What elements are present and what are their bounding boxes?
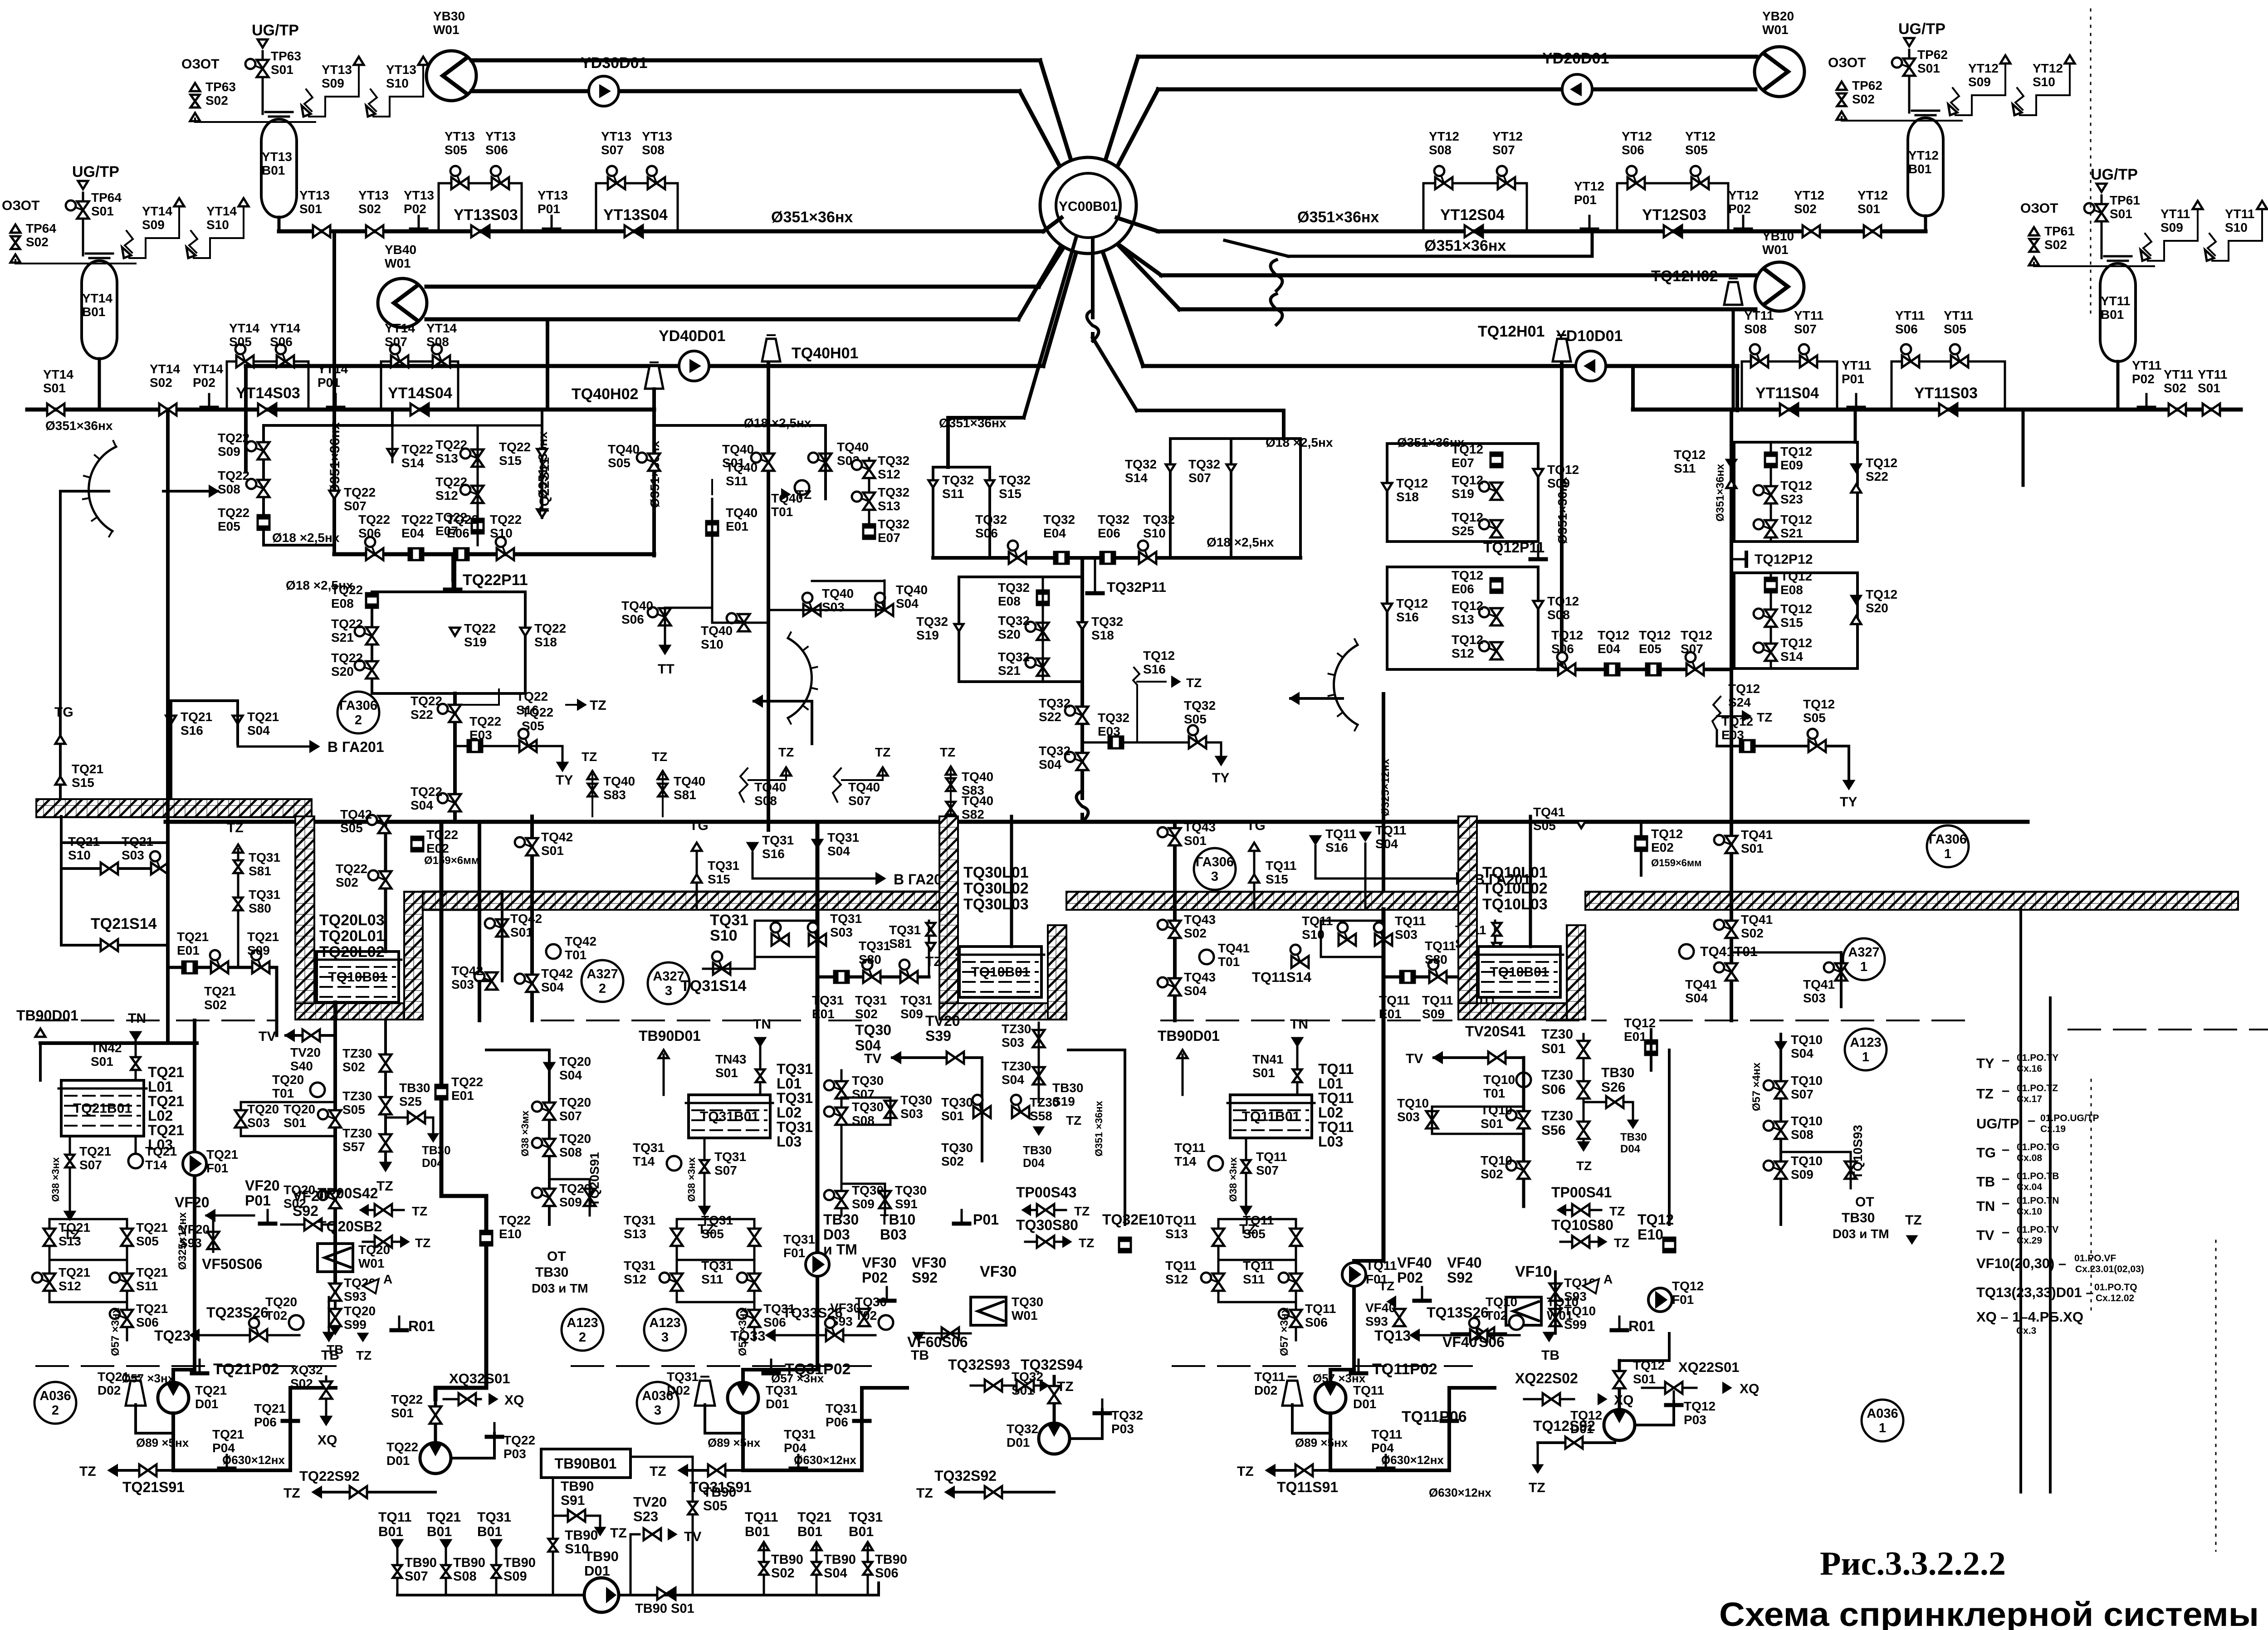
svg-text:S16: S16 — [1396, 610, 1419, 624]
orifice TQ32 E03 — [1082, 742, 1221, 744]
svg-text:S06: S06 — [875, 1566, 899, 1581]
svg-text:B01: B01 — [378, 1524, 403, 1539]
svg-text:TQ22: TQ22 — [331, 651, 363, 665]
svg-text:S07: S07 — [1256, 1163, 1279, 1177]
svg-text:S18: S18 — [534, 635, 557, 649]
svg-text:S03: S03 — [1803, 991, 1826, 1005]
svg-text:S06: S06 — [1551, 642, 1574, 656]
svg-text:TQ21P02: TQ21P02 — [213, 1361, 279, 1378]
svg-text:S83: S83 — [603, 788, 626, 802]
valve TQ22 S14 — [387, 449, 397, 457]
svg-text:B01: B01 — [2101, 307, 2124, 322]
svg-text:TQ20: TQ20 — [559, 1132, 591, 1146]
svg-text:S56: S56 — [1541, 1123, 1565, 1138]
valve YT14 S06 — [277, 356, 285, 367]
horn TQ12H01 — [1553, 339, 1571, 361]
svg-text:TY: TY — [556, 773, 573, 788]
svg-text:P01: P01 — [1842, 372, 1864, 386]
valve TQ22 S18 — [520, 628, 530, 636]
svg-text:TQ41: TQ41 — [1533, 805, 1565, 819]
vertical main x=737 — [332, 231, 336, 554]
tag circle A123-3 — [644, 1309, 686, 1351]
svg-text:S07: S07 — [848, 794, 871, 808]
svg-text:TQ12: TQ12 — [1780, 636, 1812, 650]
svg-text:TQ32E10: TQ32E10 — [1102, 1211, 1164, 1228]
svg-text:S01: S01 — [1857, 202, 1880, 216]
bypass box YT14S03 — [227, 361, 308, 410]
svg-text:S16: S16 — [1143, 662, 1166, 676]
svg-text:TP00S43: TP00S43 — [1016, 1184, 1076, 1201]
svg-text:S91: S91 — [561, 1493, 585, 1508]
valve TQ31 S04 — [813, 840, 822, 847]
svg-text:Cx.04: Cx.04 — [2017, 1182, 2042, 1192]
svg-text:TQ21: TQ21 — [206, 1147, 238, 1161]
svg-text:TQ32P11: TQ32P11 — [1107, 579, 1166, 595]
svg-text:TQ21: TQ21 — [122, 835, 153, 849]
hx TQ10W01 — [1506, 1297, 1541, 1325]
svg-text:B01: B01 — [849, 1524, 874, 1539]
vertical YB40 to YT14 row — [546, 319, 549, 410]
valve TB30 S25 — [386, 1117, 433, 1119]
riser TQ42 S01 x=1057 — [478, 822, 481, 1020]
valve TQ12 S14 — [1765, 644, 1777, 652]
valve TQ40 S10 — [738, 614, 750, 623]
svg-text:S11: S11 — [942, 487, 964, 501]
valve TQ22S92 — [318, 1491, 435, 1493]
svg-text:S09: S09 — [503, 1569, 527, 1584]
valve VF30 S93 — [858, 1309, 870, 1318]
valve TQ20 S02 — [329, 1191, 341, 1200]
svg-text:S09: S09 — [322, 76, 344, 90]
svg-text:S04: S04 — [1791, 1046, 1813, 1060]
valve YT13 S06 — [492, 177, 500, 189]
svg-text:TQ12: TQ12 — [1721, 714, 1753, 728]
svg-text:TQ22: TQ22 — [358, 512, 390, 527]
svg-text:TV20: TV20 — [925, 1013, 960, 1029]
svg-text:В ГА201: В ГА201 — [327, 739, 384, 755]
valve TQ43 S04 — [1169, 978, 1181, 987]
valve TQ40 S82 — [946, 802, 955, 808]
gauge TQ11 T14 — [1208, 1156, 1223, 1171]
pump TQ12D01 — [1604, 1410, 1635, 1440]
svg-text:TQ21: TQ21 — [181, 710, 212, 724]
svg-text:S93: S93 — [1564, 1289, 1587, 1303]
svg-text:Ø630×12нх: Ø630×12нх — [1429, 1486, 1491, 1499]
svg-text:B01: B01 — [82, 305, 105, 319]
tag circle GA306-1 — [1927, 825, 1969, 867]
svg-text:TQ10B01: TQ10B01 — [971, 965, 1030, 980]
TQ21 E01 row — [168, 966, 277, 969]
svg-text:T14: T14 — [633, 1154, 655, 1168]
svg-text:S09: S09 — [1422, 1007, 1445, 1021]
svg-text:P02: P02 — [1728, 202, 1751, 216]
valve TQ10 S03 — [1426, 1111, 1438, 1120]
svg-text:L02: L02 — [777, 1104, 802, 1121]
drain TQ12P11 — [1537, 546, 1540, 558]
svg-text:TB: TB — [1976, 1174, 1995, 1190]
tag circle A123-2 — [562, 1309, 603, 1351]
svg-text:TQ22: TQ22 — [516, 689, 548, 703]
svg-text:TQ12: TQ12 — [1633, 1358, 1665, 1372]
svg-text:TQ30: TQ30 — [855, 1022, 891, 1038]
svg-text:S92: S92 — [912, 1269, 938, 1286]
svg-text:S05: S05 — [1803, 711, 1826, 725]
svg-text:TQ10B01: TQ10B01 — [1490, 965, 1549, 980]
valve TQ21 S10 — [101, 863, 109, 874]
svg-text:Ø38 ×3нх: Ø38 ×3нх — [50, 1157, 61, 1202]
svg-text:TQ12: TQ12 — [1624, 1016, 1656, 1030]
tag circle A123-1 — [1845, 1029, 1887, 1070]
svg-text:01.PO.UG/TP: 01.PO.UG/TP — [2040, 1113, 2099, 1123]
svg-text:L03: L03 — [777, 1133, 802, 1150]
svg-text:T02: T02 — [855, 1308, 877, 1323]
svg-text:TQ11: TQ11 — [1318, 1090, 1354, 1106]
svg-text:S06: S06 — [975, 526, 998, 540]
valve TQ20 S93 — [334, 1272, 337, 1315]
valve TQ22 S02 on fill — [380, 871, 391, 880]
svg-text:S01: S01 — [91, 1054, 113, 1069]
svg-text:T02: T02 — [265, 1308, 287, 1323]
svg-text:S03: S03 — [247, 1116, 270, 1130]
orifice TQ40 E01 — [706, 521, 718, 536]
svg-text:TQ10: TQ10 — [1791, 1074, 1823, 1088]
svg-text:YT12S03: YT12S03 — [1642, 206, 1706, 224]
orifice TQ22 E02 — [411, 837, 423, 851]
svg-text:S05: S05 — [1184, 712, 1207, 726]
svg-text:S05: S05 — [340, 821, 363, 835]
svg-text:YT14: YT14 — [142, 204, 172, 218]
svg-text:Cx.29: Cx.29 — [2017, 1235, 2042, 1246]
svg-text:2: 2 — [355, 713, 362, 727]
svg-text:TQ12: TQ12 — [1780, 602, 1812, 616]
svg-text:S04: S04 — [1685, 991, 1708, 1005]
svg-text:S10: S10 — [490, 526, 513, 540]
svg-text:E02: E02 — [426, 841, 449, 855]
svg-text:TQ32: TQ32 — [1007, 1422, 1038, 1436]
svg-text:S11: S11 — [726, 474, 748, 488]
svg-text:TQ33S26: TQ33S26 — [782, 1305, 843, 1321]
cross tie line — [1288, 232, 1592, 256]
valve YT11 S02 — [2169, 404, 2177, 415]
svg-text:P02: P02 — [193, 376, 215, 390]
svg-text:TQ21: TQ21 — [79, 1144, 111, 1158]
B GA201 arrow C — [1315, 878, 1458, 880]
svg-text:TB90: TB90 — [703, 1485, 736, 1500]
svg-text:E01: E01 — [177, 943, 200, 957]
svg-text:TQ31: TQ31 — [812, 993, 844, 1007]
svg-text:S10: S10 — [1143, 526, 1166, 540]
svg-text:01.PO.TQ: 01.PO.TQ — [2094, 1282, 2137, 1293]
svg-text:S04: S04 — [1184, 984, 1207, 998]
valve TQ40 S01 — [763, 454, 774, 462]
drain YT12 P02 — [1742, 216, 1745, 229]
riser TQ43 x=2590 — [1173, 822, 1177, 1020]
svg-text:S23: S23 — [633, 1508, 658, 1524]
svg-text:TQ12: TQ12 — [1866, 456, 1897, 470]
svg-text:F01: F01 — [1672, 1293, 1694, 1307]
svg-text:TQ22: TQ22 — [447, 512, 479, 527]
fill line into tank — [384, 816, 387, 952]
svg-text:TQ12P12: TQ12P12 — [1755, 552, 1813, 567]
svg-text:3: 3 — [665, 984, 672, 998]
relief valve YT13 S09 — [309, 116, 325, 117]
svg-text:W01: W01 — [433, 23, 459, 37]
svg-text:D01: D01 — [584, 1563, 610, 1579]
svg-text:P03: P03 — [1111, 1422, 1134, 1436]
svg-text:S02: S02 — [1741, 926, 1764, 940]
svg-text:TQ11: TQ11 — [1375, 823, 1406, 837]
svg-text:TZ30: TZ30 — [342, 1126, 372, 1140]
svg-text:TB30: TB30 — [1023, 1143, 1052, 1157]
svg-text:S05: S05 — [342, 1103, 365, 1117]
TB90D01 arrow — [35, 1029, 45, 1037]
svg-text:3: 3 — [654, 1403, 661, 1418]
svg-text:E10: E10 — [1637, 1226, 1663, 1243]
svg-text:TQ20: TQ20 — [272, 1073, 304, 1087]
valve TQ11 S04 — [1361, 833, 1370, 840]
svg-text:S15: S15 — [999, 487, 1022, 501]
main line YT12 row — [1158, 229, 1926, 234]
header line y=807 left with YD40D01 — [246, 364, 1043, 368]
valve TQ12 S19 — [1491, 483, 1502, 491]
svg-text:Ø18 ×2,5нх: Ø18 ×2,5нх — [272, 531, 340, 545]
svg-text:TP00S41: TP00S41 — [1551, 1184, 1612, 1201]
svg-text:TQ22: TQ22 — [331, 583, 363, 597]
valve TQ21S14 — [101, 939, 109, 951]
svg-text:TQ40H01: TQ40H01 — [792, 345, 858, 362]
svg-text:TQ30: TQ30 — [1012, 1295, 1043, 1309]
svg-text:TP63: TP63 — [205, 80, 236, 94]
svg-text:TV: TV — [864, 1051, 881, 1066]
svg-text:–: – — [2002, 1141, 2009, 1157]
hatched tank assembly 3 — [1458, 816, 1477, 1018]
svg-text:S02: S02 — [855, 1007, 878, 1021]
svg-text:S15: S15 — [1780, 615, 1803, 630]
svg-text:TQ31: TQ31 — [701, 1213, 733, 1227]
drain TQ21 P06 — [289, 1407, 292, 1420]
TB30 D04 vent — [1035, 1127, 1043, 1134]
svg-text:TQ12: TQ12 — [1651, 827, 1683, 841]
svg-text:S09: S09 — [218, 444, 240, 459]
svg-text:S04: S04 — [411, 798, 433, 812]
svg-text:P01: P01 — [245, 1192, 271, 1209]
valve TQ32 S14 box — [1169, 439, 1172, 558]
svg-text:S07: S07 — [601, 143, 624, 157]
svg-text:S13: S13 — [435, 451, 458, 465]
svg-text:A: A — [383, 1272, 392, 1286]
svg-text:TB10: TB10 — [880, 1211, 915, 1228]
svg-text:TQ42: TQ42 — [541, 830, 573, 844]
svg-text:TZ: TZ — [778, 745, 794, 759]
gauge TQ10 T01 — [1516, 1073, 1531, 1087]
svg-text:TQ42: TQ42 — [565, 934, 596, 948]
orifice TQ22 E10 — [480, 1231, 492, 1245]
svg-text:YT12: YT12 — [1685, 129, 1716, 143]
svg-text:TQ42: TQ42 — [510, 912, 542, 926]
gauge TQ41T01 — [1679, 944, 1694, 959]
riser C main x=3050 — [1382, 909, 1386, 1261]
svg-text:TQ12: TQ12 — [1866, 587, 1897, 601]
risers TQ30 — [841, 1070, 843, 1215]
svg-text:TQ10: TQ10 — [1791, 1114, 1823, 1128]
bypass box YT11S04 — [1742, 361, 1837, 410]
XQ22S02 row — [1524, 1398, 1574, 1401]
relief TQ12 S24 — [1712, 697, 1721, 730]
left small cluster TQ21 S13/S12/S05/S11/S06 — [49, 1219, 51, 1302]
pipe pair YB40 to hub — [426, 285, 1039, 289]
svg-text:TZ: TZ — [227, 820, 244, 835]
svg-text:TQ40: TQ40 — [822, 586, 854, 600]
risers TQ10 — [1522, 1058, 1525, 1206]
rows TQ32S93 S94 — [971, 1385, 1039, 1387]
svg-text:TQ10L02: TQ10L02 — [1482, 880, 1548, 897]
svg-text:YT14: YT14 — [385, 321, 415, 335]
valve TQ22 S10 — [497, 548, 505, 560]
pump TQ22D01 — [420, 1443, 451, 1474]
svg-text:TP00S42: TP00S42 — [318, 1185, 378, 1201]
svg-text:S11: S11 — [1243, 1272, 1265, 1286]
valve TQ31 S16 — [748, 843, 757, 850]
orifice TQ22 E05 — [258, 515, 269, 530]
svg-text:S15: S15 — [1266, 872, 1288, 886]
svg-text:XQ: XQ — [1614, 1393, 1633, 1408]
svg-text:XQ22S02: XQ22S02 — [1515, 1370, 1578, 1386]
vertical x=1442 from TQ40H02 — [652, 389, 656, 556]
svg-text:S04: S04 — [827, 844, 850, 858]
orifice TQ32 E07 — [863, 524, 875, 539]
svg-text:TZ: TZ — [940, 745, 955, 759]
svg-text:YT11: YT11 — [2198, 367, 2227, 381]
svg-text:W01: W01 — [385, 256, 411, 270]
svg-text:TQ22: TQ22 — [435, 438, 467, 452]
valve TQ40 S06 — [659, 608, 671, 617]
svg-text:XQ: XQ — [504, 1393, 524, 1408]
svg-text:TZ: TZ — [652, 750, 667, 764]
main riser B x=1802 — [816, 822, 820, 1261]
svg-text:TQ21: TQ21 — [136, 1265, 168, 1279]
tag circle A036-2 — [34, 1382, 76, 1424]
svg-text:T01: T01 — [771, 505, 793, 519]
svg-text:YT13S03: YT13S03 — [454, 206, 518, 224]
TG TQ11 S15 col C — [1253, 846, 1256, 909]
svg-text:T14: T14 — [145, 1158, 167, 1172]
svg-text:TQ31: TQ31 — [766, 1383, 797, 1397]
svg-text:TQ11: TQ11 — [1353, 1383, 1384, 1397]
svg-text:TQ40: TQ40 — [848, 780, 880, 794]
svg-text:2: 2 — [599, 981, 606, 996]
svg-text:TQ12H02: TQ12H02 — [1651, 268, 1718, 285]
svg-text:Cx.10: Cx.10 — [2017, 1206, 2042, 1217]
svg-text:YB40: YB40 — [385, 243, 416, 257]
svg-text:S02: S02 — [150, 376, 172, 390]
valve TQ20 S99 — [329, 1309, 341, 1318]
svg-text:VF30: VF30 — [862, 1254, 896, 1271]
pump TQ32D01 — [1039, 1423, 1070, 1454]
svg-text:TV20: TV20 — [633, 1494, 667, 1510]
svg-text:B01: B01 — [427, 1524, 452, 1539]
svg-text:TQ32: TQ32 — [1184, 698, 1216, 713]
svg-text:S01: S01 — [391, 1406, 414, 1420]
svg-text:YT13: YT13 — [262, 150, 292, 164]
svg-text:TB90: TB90 — [405, 1556, 437, 1570]
svg-text:YT13: YT13 — [642, 129, 672, 143]
svg-text:S22: S22 — [1866, 469, 1888, 483]
svg-text:TQ12: TQ12 — [1780, 512, 1812, 527]
svg-text:S12: S12 — [878, 467, 900, 481]
central distributor YC00B01 — [1040, 157, 1136, 254]
svg-text:TQ22: TQ22 — [336, 862, 367, 876]
svg-text:S08: S08 — [1744, 322, 1767, 336]
svg-text:E06: E06 — [1452, 582, 1474, 596]
svg-text:TQ11: TQ11 — [1165, 1259, 1196, 1273]
orifice TQ22 E03 — [455, 745, 528, 747]
vertical x=3443 from TQ12H01 — [1560, 363, 1564, 669]
svg-text:S16: S16 — [516, 703, 539, 717]
svg-text:YT12: YT12 — [1968, 61, 1999, 75]
svg-text:TQ12: TQ12 — [1547, 463, 1579, 477]
TV line — [286, 1030, 294, 1040]
svg-text:D03 и TM: D03 и TM — [1833, 1227, 1889, 1241]
svg-text:S02: S02 — [2164, 381, 2186, 395]
drain TQ12 P03 — [1635, 1401, 1674, 1425]
svg-text:S12: S12 — [435, 488, 458, 503]
drain YT12 P01 — [1589, 216, 1591, 229]
svg-text:S10: S10 — [2225, 220, 2248, 234]
relief TQ40 S08 — [739, 768, 748, 802]
svg-text:YT11S04: YT11S04 — [1755, 385, 1819, 402]
bypass box YT12S04 — [1423, 183, 1527, 231]
svg-text:TQ40: TQ40 — [726, 460, 758, 474]
svg-text:YT14: YT14 — [43, 367, 73, 381]
svg-text:TQ20L01: TQ20L01 — [319, 927, 385, 945]
svg-text:S13: S13 — [1452, 612, 1474, 626]
svg-text:P02: P02 — [404, 202, 426, 216]
svg-text:S04: S04 — [247, 723, 270, 737]
svg-text:TB90: TB90 — [771, 1552, 803, 1567]
svg-text:TQ41: TQ41 — [1741, 913, 1773, 927]
valve TQ10 S02 — [1518, 1161, 1530, 1170]
svg-text:S80: S80 — [1425, 952, 1447, 966]
svg-text:TB90D01: TB90D01 — [16, 1007, 78, 1024]
svg-text:TN43: TN43 — [715, 1052, 746, 1066]
svg-text:F01: F01 — [206, 1161, 228, 1175]
svg-text:TQ22: TQ22 — [464, 621, 496, 635]
svg-text:Ø89 ×5нх: Ø89 ×5нх — [1295, 1436, 1348, 1449]
svg-text:Ø89 ×5нх: Ø89 ×5нх — [136, 1436, 189, 1449]
svg-text:TB30: TB30 — [1620, 1131, 1647, 1143]
svg-text:TQ12: TQ12 — [1780, 444, 1812, 459]
svg-text:TQ22: TQ22 — [401, 512, 433, 527]
bypass box YT11S03 — [1892, 361, 2005, 410]
svg-text:S19: S19 — [916, 628, 939, 642]
valve TQ11 S16 — [1311, 836, 1320, 844]
svg-text:VF50S06: VF50S06 — [202, 1256, 262, 1272]
svg-text:Ø18 ×2,5нх: Ø18 ×2,5нх — [744, 416, 811, 430]
check valve YT14S03 — [258, 404, 267, 415]
svg-text:TQ20: TQ20 — [344, 1304, 376, 1318]
svg-text:Ø57 ×4нх: Ø57 ×4нх — [1750, 1062, 1763, 1111]
svg-text:S01: S01 — [91, 204, 114, 218]
svg-text:TQ31: TQ31 — [777, 1061, 813, 1077]
svg-text:TQ10S93: TQ10S93 — [1851, 1125, 1865, 1179]
drain YT13 P02 — [418, 216, 420, 229]
svg-text:YT12: YT12 — [1574, 179, 1604, 193]
svg-text:Ø57 ×3нх: Ø57 ×3нх — [122, 1371, 175, 1385]
svg-text:P06: P06 — [826, 1415, 848, 1429]
orifice TQ12 E05 — [1646, 664, 1661, 675]
svg-text:D01: D01 — [386, 1454, 410, 1468]
svg-text:TQ12H01: TQ12H01 — [1478, 323, 1545, 340]
